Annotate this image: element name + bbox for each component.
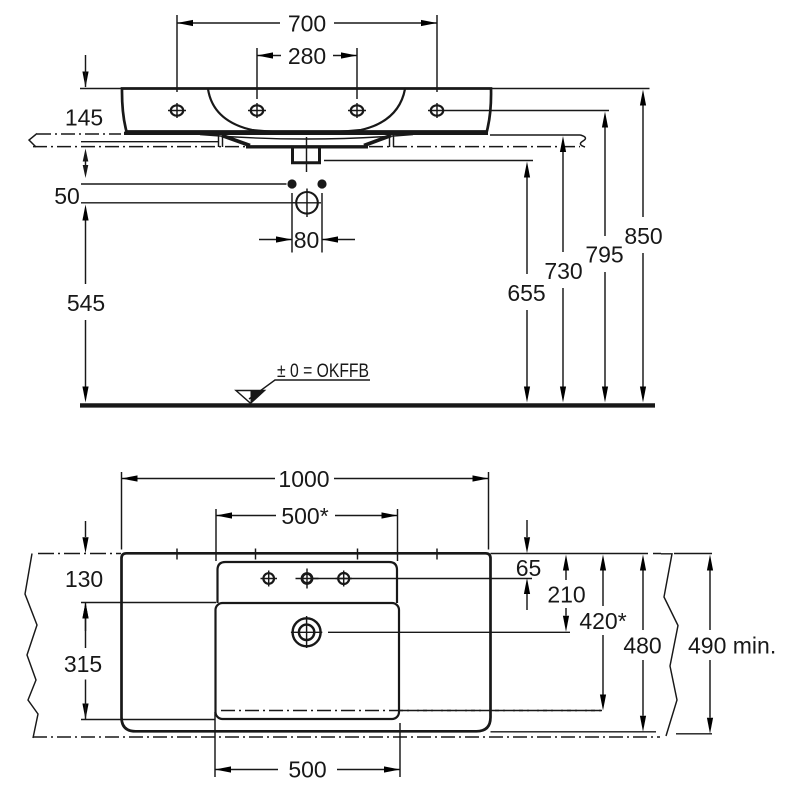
- svg-text:315: 315: [64, 651, 102, 677]
- dimension 1000: [122, 466, 489, 550]
- extension line 315: [81, 719, 215, 721]
- dimension 145/50 double arrow: [83, 149, 89, 179]
- dimension 795: [585, 112, 623, 403]
- datum triangle: [236, 391, 265, 404]
- bowl hidden bottom dash-dot: [221, 710, 602, 712]
- dimension 500*: [216, 503, 398, 561]
- svg-text:1000: 1000: [278, 466, 329, 492]
- underside bulge curve: [200, 135, 413, 140]
- extension line y141.7: [81, 141, 218, 143]
- wall dash-dot line lower: [33, 146, 580, 148]
- datum underline and leader: [249, 380, 370, 399]
- basin bowl interior curve: [208, 89, 405, 133]
- drain center line: [306, 137, 308, 172]
- wall break zigzag left: [25, 554, 38, 739]
- svg-text:500*: 500*: [281, 503, 328, 529]
- right bracket wedge: [364, 136, 391, 146]
- tap hole front: [293, 189, 321, 218]
- plan faucet hole middle: [296, 569, 319, 589]
- svg-text:280: 280: [288, 43, 326, 69]
- dimension 315: [64, 603, 102, 720]
- plan tap hole: [291, 616, 322, 648]
- bowl outline: [216, 603, 400, 719]
- counter hidden bottom dash-dot: [33, 736, 660, 738]
- plan faucet hole right: [336, 571, 353, 587]
- svg-text:145: 145: [65, 105, 103, 131]
- dimension 80: [259, 193, 355, 253]
- svg-text:80: 80: [294, 227, 320, 253]
- svg-text:210: 210: [547, 582, 585, 608]
- 50 upper line: [81, 183, 287, 185]
- extension line 655: [324, 160, 533, 162]
- counter bottom edge right: [491, 731, 657, 733]
- dimension 655: [507, 162, 545, 403]
- right bracket ticks: [390, 135, 394, 148]
- dimension 700: [177, 11, 437, 93]
- svg-text:655: 655: [507, 280, 545, 306]
- basin body outline: [122, 89, 491, 134]
- svg-text:795: 795: [585, 242, 623, 268]
- extension line 850: [492, 88, 650, 90]
- extension line 130: [81, 602, 216, 604]
- svg-text:700: 700: [288, 11, 326, 37]
- svg-text:480: 480: [623, 633, 661, 659]
- dimension 500 bottom: [215, 712, 400, 783]
- counter break squiggle right: [580, 135, 585, 147]
- dimension 850: [624, 90, 662, 403]
- svg-text:65: 65: [516, 555, 542, 581]
- dimension 545: [67, 205, 105, 403]
- floor line: [80, 403, 655, 407]
- svg-text:730: 730: [544, 258, 582, 284]
- mounting hole 3: [348, 103, 366, 118]
- svg-text:130: 130: [65, 566, 103, 592]
- dimension 145 upper arrow: [82, 55, 88, 88]
- extension line 795: [446, 110, 609, 112]
- mounting hole 2: [248, 103, 266, 118]
- mounting hole 1: [168, 103, 186, 118]
- dimension 480: [623, 555, 661, 732]
- counter bottom edge far right: [676, 733, 712, 735]
- 50 lower line: [81, 202, 295, 204]
- dimension 730: [544, 136, 582, 403]
- svg-text:50: 50: [54, 183, 80, 209]
- left bracket wedge: [222, 136, 250, 146]
- tap extension line: [328, 631, 570, 633]
- dimension 130: [65, 521, 103, 631]
- wall break squiggle left: [29, 134, 37, 148]
- basin plan outline: [122, 553, 491, 731]
- drain box: [293, 148, 320, 163]
- wall break zigzag right: [661, 554, 678, 736]
- left bracket ticks: [219, 135, 223, 148]
- mounting hole 4: [428, 103, 446, 118]
- plan faucet hole left: [261, 571, 278, 587]
- svg-text:850: 850: [624, 223, 662, 249]
- dimension 65: [516, 520, 542, 610]
- counter top edge far right: [674, 553, 712, 555]
- fixing tick marks: [177, 549, 437, 560]
- holes extension line: [313, 578, 533, 580]
- counter line right: [490, 134, 581, 136]
- tap deck inner outline: [218, 562, 398, 603]
- counter top edge right: [491, 553, 662, 555]
- wall dash-dot line left: [37, 133, 121, 135]
- counter top edge left (dash-dot): [38, 553, 121, 555]
- extension 420* dash: [399, 710, 602, 712]
- extension line basin top left: [80, 88, 122, 90]
- svg-text:± 0 = OKFFB: ± 0 = OKFFB: [277, 361, 369, 382]
- dimension 490 min: [688, 555, 776, 734]
- dimension 210: [547, 555, 585, 632]
- svg-text:500: 500: [288, 757, 326, 783]
- svg-text:420*: 420*: [579, 608, 626, 634]
- svg-text:545: 545: [67, 290, 105, 316]
- dimension 280: [257, 43, 357, 99]
- drain channel band: [246, 145, 368, 148]
- svg-text:490 min.: 490 min.: [688, 633, 776, 659]
- dimension 420*: [579, 555, 626, 711]
- faucet hole dots: [287, 179, 326, 188]
